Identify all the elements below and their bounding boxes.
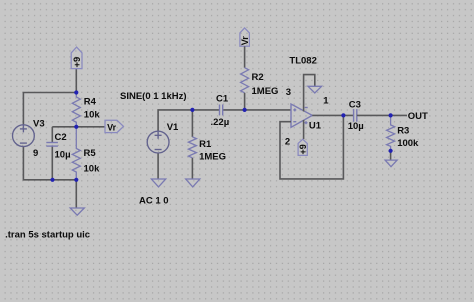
wire C2 top stem	[51, 127, 53, 143]
svg-text:C2: C2	[55, 132, 67, 143]
svg-text:10k: 10k	[84, 110, 101, 121]
svg-text:1MEG: 1MEG	[252, 86, 279, 97]
voltage source V3	[13, 125, 35, 147]
svg-text:OUT: OUT	[408, 111, 428, 122]
svg-text:+9: +9	[72, 57, 83, 68]
resistor R3	[387, 115, 395, 150]
ground (under R3)	[385, 160, 397, 167]
resistor R1	[188, 137, 196, 158]
wire top-left rail V3 to R4	[23, 93, 76, 125]
junction node op-amp output	[341, 113, 345, 117]
wire op-amp V+ pin to +9 flag	[303, 120, 305, 139]
wire Vr flag to R2	[244, 46, 246, 67]
svg-text:.22µ: .22µ	[211, 117, 230, 128]
svg-text:R4: R4	[84, 97, 97, 108]
svg-text:V3: V3	[33, 118, 45, 129]
svg-text:C3: C3	[349, 100, 361, 111]
wire V1 bottom stem	[157, 153, 159, 179]
svg-text:SINE(0 1 1kHz): SINE(0 1 1kHz)	[120, 91, 187, 102]
svg-text:U1: U1	[309, 120, 322, 131]
svg-text:R1: R1	[199, 139, 212, 150]
flag Vr (top, above R2)	[240, 28, 250, 46]
svg-text:10µ: 10µ	[55, 149, 71, 160]
wire C3 to R3 node and OUT	[357, 114, 407, 116]
svg-text:V1: V1	[167, 122, 179, 133]
wire node to Vr flag	[52, 126, 105, 128]
wire C2 bottom stem	[51, 146, 53, 180]
wire feedback loop	[280, 115, 343, 178]
voltage source V1	[147, 131, 169, 153]
svg-text:1MEG: 1MEG	[199, 152, 226, 163]
flag +9 (op-amp supply)	[298, 139, 307, 155]
wire +9 flag stem to R4	[75, 69, 77, 93]
svg-text:+9: +9	[298, 144, 308, 154]
wire R3 to ground	[390, 151, 392, 160]
svg-text:AC 1 0: AC 1 0	[139, 195, 169, 206]
svg-text:9: 9	[33, 148, 38, 159]
junction node R2 bottom	[243, 108, 247, 112]
wire ground stem left block	[75, 180, 77, 208]
resistor R2	[241, 68, 249, 93]
resistor R4	[72, 93, 80, 127]
junction node OUT	[389, 113, 393, 117]
junction node R1 top	[190, 108, 194, 112]
svg-text:R3: R3	[397, 126, 409, 137]
svg-text:2: 2	[285, 136, 290, 147]
svg-text:Vr: Vr	[240, 36, 250, 46]
ground (op-amp V-)	[308, 86, 322, 93]
flag +9 (top left)	[71, 47, 82, 69]
capacitor C2	[46, 143, 58, 147]
wire op-amp output	[312, 114, 353, 116]
svg-text:10k: 10k	[84, 163, 101, 174]
junction node R5 bottom	[74, 178, 78, 182]
junction node divider mid	[74, 125, 78, 129]
ground (under R1)	[186, 179, 200, 187]
wire R1 top stem	[191, 110, 193, 137]
svg-text:10µ: 10µ	[348, 121, 364, 132]
junction node R4 top	[74, 90, 78, 94]
op-amp U1	[291, 104, 312, 127]
wire R2 to rail	[244, 93, 246, 110]
svg-text:R5: R5	[84, 148, 97, 159]
svg-text:R2: R2	[252, 72, 264, 83]
svg-text:1: 1	[323, 96, 329, 107]
svg-text:3: 3	[286, 87, 291, 98]
svg-text:100k: 100k	[397, 138, 419, 149]
svg-text:Vr: Vr	[107, 123, 117, 133]
wire V3 bottom to left node	[23, 147, 76, 180]
wire op-amp V- pin to ground hat	[304, 75, 315, 112]
ground (under V1)	[151, 179, 165, 187]
wire rail C1 to op-amp	[223, 109, 291, 111]
wire V1 top stem and input rail	[158, 110, 219, 131]
svg-text:.tran 5s startup uic: .tran 5s startup uic	[5, 230, 90, 241]
capacitor C3	[354, 109, 357, 122]
ground (left block)	[70, 208, 84, 215]
junction node R3 bottom	[389, 149, 393, 153]
flag Vr (right pointing at divider node)	[105, 120, 124, 132]
resistor R5	[72, 127, 80, 180]
capacitor C1	[220, 105, 223, 116]
svg-text:TL082: TL082	[289, 55, 316, 66]
wire R1 bottom stem	[191, 158, 193, 179]
junction node C2 bottom	[50, 178, 54, 182]
svg-text:C1: C1	[216, 94, 229, 105]
